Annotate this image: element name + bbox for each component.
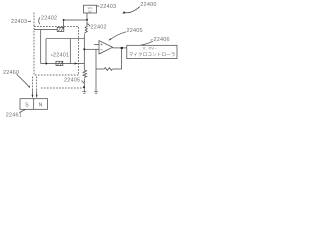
supply rail [64,19,87,21]
svg-text:マイクロコントローラ: マイクロコントローラ [129,52,176,58]
wire top resistor row [34,29,64,31]
coupler end dot [83,86,85,88]
sensor IC dashed box [34,27,79,76]
wire rail drop into box [63,20,65,30]
svg-text:22401: 22401 [53,52,69,58]
wire comparator ref input [84,48,99,50]
svg-text:5V: 5V [88,9,92,13]
junction dot bottom row [45,63,47,65]
junction dot rail right [86,19,88,21]
Vcc box [84,5,97,13]
feedback left vertical [95,49,97,69]
plus sign [100,43,102,45]
junction dot rail left [63,19,65,21]
dashed coupler line [41,87,83,89]
svg-text:22400: 22400 [140,2,156,8]
microcontroller box [127,45,177,58]
svg-text:22402: 22402 [91,25,107,31]
resistor feedback zigzag [104,68,112,71]
magnet divider [33,99,35,110]
resistor divider bottom zigzag [83,70,87,78]
resistor divider top zigzag [84,27,87,34]
flux dashed line B [36,77,38,91]
flux arrow B [36,91,38,96]
wire bridge mid vertical [45,39,47,64]
wire bridge right vertical [69,39,71,64]
ground mid [94,92,98,94]
svg-text:22461: 22461 [6,113,22,119]
label 22403 top right [97,5,100,7]
feedback bottom wire [96,68,104,70]
flux dashed line A [32,77,34,91]
feedback wire right [113,68,122,70]
output junction dot [121,47,123,49]
op-amp U comparator [99,41,113,54]
svg-text:22403: 22403 [11,19,27,25]
wire sensor output row [46,38,84,40]
svg-text:S: S [25,102,29,108]
svg-text:22405: 22405 [127,28,143,34]
plus input stub [94,44,99,46]
svg-text:22403: 22403 [100,4,116,10]
label 22406 [151,39,153,42]
wire to ground left [83,78,85,91]
minus sign [100,48,102,50]
svg-text:22406: 22406 [154,37,170,43]
feedback right vertical [121,48,123,69]
junction dot divider mid [83,48,85,50]
resistor R top-left hatched [57,27,64,31]
label 22402 top brace [39,17,40,24]
group bracket dashed stub [33,13,35,27]
wire vcc down [86,13,88,27]
magnet box [20,99,48,110]
resistor R bottom hatched [56,61,63,65]
wire to ground mid [95,69,97,92]
svg-text:0, 0V~: 0, 0V~ [143,45,157,50]
svg-text:22405: 22405 [64,78,80,84]
op-amp output wire [113,47,127,49]
arrowhead on bottom wire [75,62,78,64]
flux arrow A [32,91,34,96]
label 22401 [51,54,53,56]
wire bottom row [41,63,85,65]
ground left [82,92,86,94]
svg-text:N: N [39,102,43,108]
divider vertical [83,34,85,70]
wire bridge left vertical [40,30,42,64]
svg-text:22402: 22402 [41,15,57,21]
